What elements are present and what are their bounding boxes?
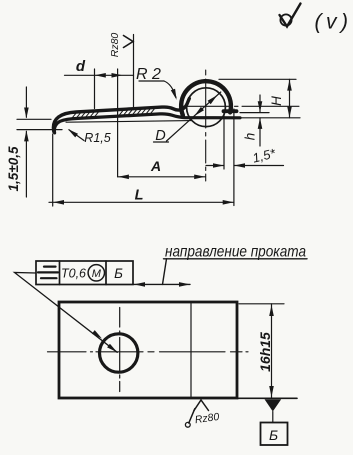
svg-text:h: h bbox=[243, 133, 258, 141]
svg-text:Б: Б bbox=[269, 427, 278, 443]
svg-text:M: M bbox=[92, 268, 102, 280]
svg-text:направление проката: направление проката bbox=[165, 244, 306, 261]
svg-text:Б: Б bbox=[114, 266, 123, 281]
svg-text:T0,6: T0,6 bbox=[61, 267, 86, 281]
svg-text:(v): (v) bbox=[315, 11, 353, 34]
svg-text:D: D bbox=[155, 128, 165, 144]
svg-text:R 2: R 2 bbox=[136, 66, 161, 83]
svg-text:L: L bbox=[135, 188, 144, 204]
svg-text:A: A bbox=[150, 158, 161, 174]
svg-text:R1,5: R1,5 bbox=[84, 131, 110, 145]
svg-text:16h15: 16h15 bbox=[257, 332, 273, 372]
svg-text:d: d bbox=[76, 58, 86, 75]
svg-text:Rz80: Rz80 bbox=[109, 33, 121, 58]
svg-text:1,5±0,5: 1,5±0,5 bbox=[6, 146, 21, 191]
svg-text:H: H bbox=[269, 96, 284, 106]
